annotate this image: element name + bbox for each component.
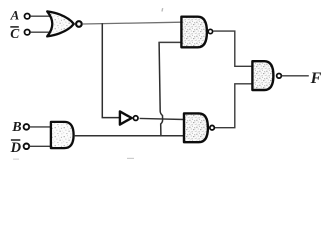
input terminal A <box>25 14 30 19</box>
wire A to NOR <box>30 15 50 17</box>
wire C to NOR <box>30 31 50 33</box>
label Dbar overline <box>11 139 20 141</box>
NAND gate U4 (top) <box>181 17 212 48</box>
wire U4 output to final NAND top input <box>213 31 252 66</box>
scan noise speck bottom left <box>13 159 19 160</box>
wire AND output to bottom NAND bottom input <box>74 135 184 137</box>
NAND gate U6 (output) <box>252 61 281 90</box>
AND gate U2 <box>51 122 74 148</box>
input terminal B <box>24 124 30 130</box>
inverter U3 <box>120 111 138 124</box>
scan noise speck bottom middle <box>127 158 134 159</box>
wire B to AND <box>29 126 51 128</box>
svg-text:B: B <box>11 120 21 135</box>
NAND gate U5 (bottom) <box>184 113 214 142</box>
svg-text:C: C <box>10 26 20 41</box>
svg-text:D: D <box>10 140 22 156</box>
svg-text:F: F <box>310 70 322 87</box>
wire NOR output to top NAND input <box>83 22 182 24</box>
wire inverter output to bottom NAND top input <box>140 118 185 119</box>
wire F output <box>282 75 309 77</box>
wire vertical branch to inverter <box>102 23 119 117</box>
input terminal D <box>24 144 30 150</box>
NOR gate U1 <box>47 11 81 36</box>
scan noise speck top <box>161 8 163 12</box>
wire D to AND <box>29 145 51 147</box>
wire U5 output to final NAND bottom input <box>215 84 253 128</box>
label Cbar overline <box>10 26 18 28</box>
wire stub to top NAND bottom input <box>158 41 181 43</box>
wire vertical from AND output up to top NAND bottom input (crossover jog) <box>159 42 163 135</box>
svg-text:A: A <box>10 8 20 23</box>
input terminal C <box>25 30 30 35</box>
